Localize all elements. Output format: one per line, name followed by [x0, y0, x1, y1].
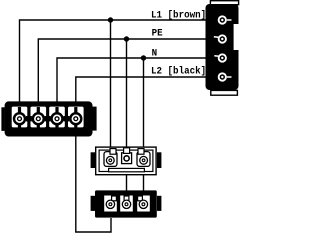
net label L2 [black]	[151, 65, 206, 76]
wire L1 (horizontal run + left drop to X2 terminal 1)	[20, 20, 207, 102]
svg-text:PE: PE	[152, 27, 163, 38]
terminal block X3 3-pole (middle upper)	[91, 147, 162, 175]
node junction PE	[124, 36, 129, 41]
wire PE link X3 to X4	[126, 175, 128, 191]
terminal block X2 4-pole (left)	[1, 101, 96, 136]
terminal block X4 3-pole (middle lower)	[91, 190, 162, 217]
wire N branch down to X3 terminal 3	[143, 58, 145, 147]
wire N link X3 to X4	[143, 175, 145, 191]
net label PE	[152, 27, 163, 38]
wire PE branch down to X3 terminal 2	[126, 39, 128, 147]
net label N	[152, 47, 158, 58]
connector X1 4-pole socket (right)	[206, 1, 239, 96]
wire PE (horizontal run + left drop to X2 terminal 2)	[38, 39, 206, 102]
wire L2 return (X2 bottom to X4 bottom)	[76, 136, 111, 232]
svg-text:L1 [brown]: L1 [brown]	[151, 9, 206, 20]
node junction L1	[108, 17, 113, 22]
wire L1 branch down to X3 terminal 1	[110, 20, 112, 147]
node junction N	[141, 55, 146, 60]
net label L1 [brown]	[151, 9, 206, 20]
wire N (horizontal run + left drop to X2 terminal 3)	[57, 58, 207, 102]
svg-text:N: N	[152, 47, 158, 58]
svg-text:L2 [black]: L2 [black]	[151, 65, 206, 76]
wire L2 (horizontal run + left drop to X2 terminal 4)	[76, 77, 207, 102]
